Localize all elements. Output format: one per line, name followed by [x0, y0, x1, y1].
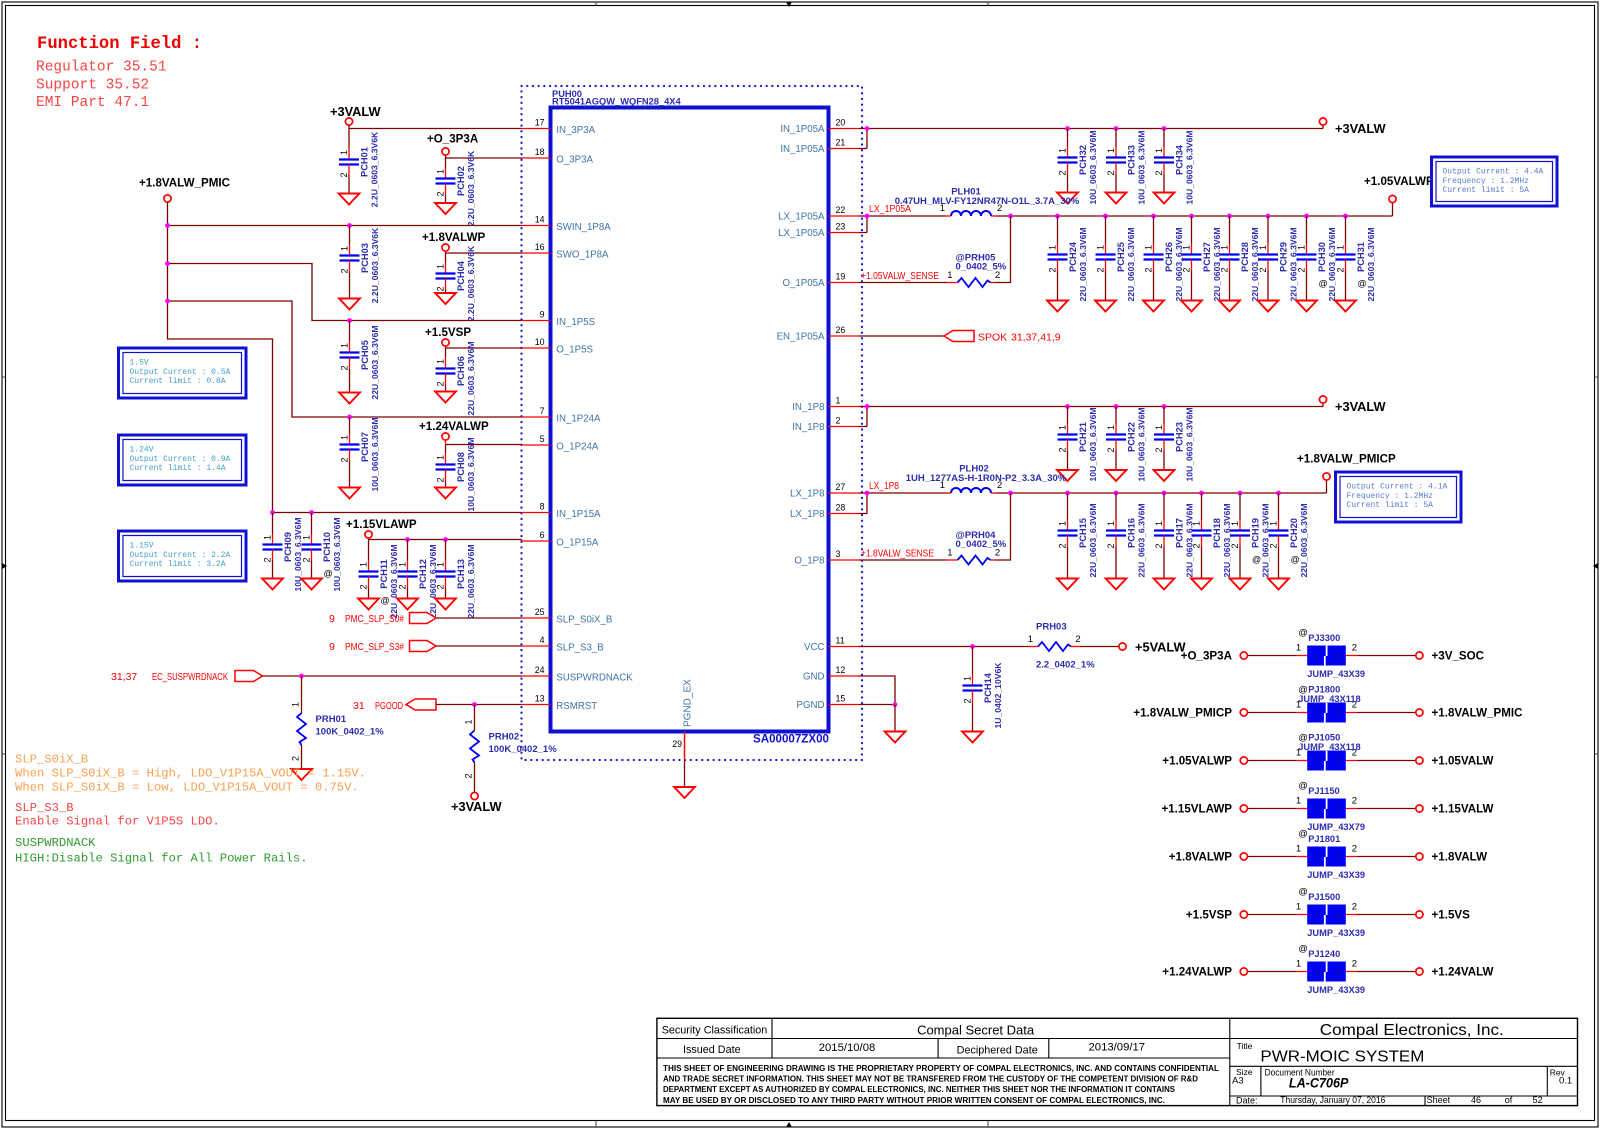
pin 23 LX_1P05A: [778, 221, 858, 239]
svg-text:2: 2: [340, 268, 350, 273]
svg-text:PCH32: PCH32: [1078, 145, 1088, 175]
svg-text:Regulator 35.51: Regulator 35.51: [36, 60, 167, 76]
svg-text:+1.5VSP: +1.5VSP: [425, 326, 471, 339]
svg-text:2: 2: [1336, 708, 1341, 718]
svg-text:2013/09/17: 2013/09/17: [1089, 1042, 1146, 1054]
resistor PRH03: [1028, 622, 1095, 671]
ground at pin 29: [674, 787, 695, 798]
wire rail 1P05: [1011, 215, 1393, 217]
svg-text:PJ3300: PJ3300: [1308, 633, 1340, 643]
svg-text:2.2_0402_1%: 2.2_0402_1%: [1036, 660, 1095, 671]
svg-text:PCH31: PCH31: [1356, 242, 1366, 272]
pin 2 IN_1P8: [792, 415, 858, 433]
svg-text:@: @: [1358, 279, 1367, 289]
svg-text:MAY BE USED BY OR DISCLOSED TO: MAY BE USED BY OR DISCLOSED TO ANY THIRD…: [663, 1096, 1165, 1105]
svg-text:1: 1: [1058, 425, 1068, 430]
capacitor PCH14: [962, 647, 1003, 743]
svg-text:PCH27: PCH27: [1202, 242, 1212, 272]
svg-text:22U_0603_6.3V6M: 22U_0603_6.3V6M: [466, 544, 476, 618]
svg-text:10U_0603_6.3V6M: 10U_0603_6.3V6M: [1185, 130, 1195, 204]
svg-text:2: 2: [1182, 267, 1192, 272]
svg-text:19: 19: [836, 271, 846, 281]
svg-text:2: 2: [836, 415, 841, 425]
svg-text:PCH01: PCH01: [360, 147, 370, 177]
svg-text:PRH01: PRH01: [316, 714, 347, 725]
capacitor PCH26: [1143, 216, 1184, 312]
svg-text:2: 2: [1058, 170, 1068, 175]
wire LX_1P8 from pins 27/28: [859, 493, 947, 514]
wire PLH02 stubs: [946, 492, 1011, 494]
svg-text:6: 6: [540, 530, 545, 540]
svg-text:0_0402_5%: 0_0402_5%: [956, 262, 1007, 273]
svg-text:5: 5: [540, 434, 545, 444]
net flag SPOK: [944, 331, 1061, 344]
svg-text:2.2U_0603_6.3V6K: 2.2U_0603_6.3V6K: [466, 245, 476, 321]
svg-text:+O_3P3A: +O_3P3A: [427, 133, 479, 146]
pin 10 O_1P5S: [522, 337, 594, 356]
svg-text:PJ1240: PJ1240: [1308, 949, 1340, 959]
svg-text:22U_0603_6.3V6M: 22U_0603_6.3V6M: [1299, 503, 1309, 577]
svg-text:22U_0603_6.3V6M: 22U_0603_6.3V6M: [1185, 503, 1195, 577]
svg-text:Security Classification: Security Classification: [662, 1025, 768, 1037]
svg-text:26: 26: [836, 325, 846, 335]
svg-text:SUSPWRDNACK: SUSPWRDNACK: [556, 672, 633, 683]
wire +1.15VLAWP to pin 6: [369, 539, 522, 541]
svg-text:@: @: [1298, 887, 1308, 898]
svg-text:13: 13: [535, 693, 545, 703]
svg-text:O_1P15A: O_1P15A: [556, 537, 599, 548]
svg-text:31: 31: [353, 700, 365, 712]
junction at PCH24: [1055, 214, 1060, 219]
ground at GND: [885, 732, 906, 743]
junction at PCH27: [1189, 214, 1194, 219]
svg-text:2: 2: [1106, 447, 1116, 452]
svg-text:PGOOD: PGOOD: [375, 700, 403, 712]
svg-text:Title: Title: [1237, 1041, 1253, 1051]
svg-text:10U_0603_6.3V6M: 10U_0603_6.3V6M: [1088, 130, 1098, 204]
capacitor PCH27: [1181, 216, 1222, 312]
svg-text:1: 1: [1144, 245, 1154, 250]
svg-text:10U_0603_6.3V6M: 10U_0603_6.3V6M: [370, 417, 380, 491]
svg-text:IN_1P8: IN_1P8: [792, 422, 824, 433]
capacitor PCH08: [435, 437, 476, 511]
svg-text:+1.05VALW: +1.05VALW: [1432, 755, 1494, 768]
power +1.5VSP: [425, 326, 471, 348]
svg-text:+1.5VSP: +1.5VSP: [1186, 909, 1232, 922]
wire GND to ground: [894, 705, 896, 732]
wire IN_1P05A rail +3VALW: [859, 125, 1324, 149]
junction LX1P8 pins: [865, 491, 870, 496]
svg-text:LX_1P8: LX_1P8: [790, 509, 824, 520]
svg-text:2: 2: [464, 773, 474, 778]
svg-text:2: 2: [436, 584, 446, 589]
svg-text:28: 28: [836, 502, 846, 512]
wire PLH01 stubs: [946, 215, 1011, 217]
svg-text:31,37,41,9: 31,37,41,9: [1011, 332, 1061, 344]
svg-text:21: 21: [836, 137, 846, 147]
svg-text:1: 1: [291, 702, 301, 707]
svg-text:PRH03: PRH03: [1036, 622, 1067, 633]
svg-text:PJ1801: PJ1801: [1308, 834, 1340, 844]
junction LX pins: [865, 214, 870, 219]
svg-text:1: 1: [1258, 245, 1268, 250]
svg-text:+1.8VALW_PMIC: +1.8VALW_PMIC: [139, 177, 231, 190]
junction at PRH01: [299, 674, 304, 679]
svg-text:IN_1P5S: IN_1P5S: [556, 317, 595, 328]
capacitor PCH30: [1296, 216, 1337, 312]
svg-text:PCH28: PCH28: [1240, 242, 1250, 272]
svg-text:1: 1: [1296, 796, 1301, 807]
junction at PCH09: [270, 510, 275, 515]
svg-text:2: 2: [340, 457, 350, 462]
svg-text:PCH30: PCH30: [1317, 242, 1327, 272]
pin 13 RSMRST: [522, 693, 598, 712]
svg-text:100K_0402_1%: 100K_0402_1%: [489, 744, 558, 755]
capacitor PCH22: [1106, 407, 1147, 482]
svg-text:PJ1500: PJ1500: [1308, 892, 1340, 902]
capacitor PCH24: [1047, 216, 1088, 312]
pin 3 O_1P8: [794, 549, 858, 567]
svg-text:52: 52: [1533, 1095, 1543, 1105]
svg-text:Current limit : 5A: Current limit : 5A: [1443, 186, 1530, 195]
svg-text:2: 2: [1352, 796, 1357, 807]
svg-text:+3VALW: +3VALW: [451, 799, 503, 814]
capacitor PCH34: [1154, 129, 1195, 205]
svg-text:10U_0603_6.3V6M: 10U_0603_6.3V6M: [293, 517, 303, 591]
capacitor PCH10: [301, 513, 342, 592]
svg-text:2: 2: [436, 286, 446, 291]
wire PRH05 to rail: [946, 216, 1011, 283]
svg-text:SPOK: SPOK: [978, 332, 1007, 344]
node +1.24VALWP: [1162, 966, 1247, 979]
svg-text:2: 2: [359, 584, 369, 589]
svg-text:@: @: [1252, 555, 1261, 565]
svg-text:PCH07: PCH07: [360, 432, 370, 462]
svg-text:0_0402_5%: 0_0402_5%: [956, 539, 1007, 550]
junction GND PGND: [893, 702, 898, 707]
capacitor PCH32: [1057, 129, 1098, 205]
svg-text:Issued Date: Issued Date: [683, 1044, 741, 1056]
svg-text:Enable Signal for V1P5S LDO.: Enable Signal for V1P5S LDO.: [15, 815, 220, 829]
power +1.8VALW_PMIC: [139, 177, 231, 203]
wire PRH04 to rail: [946, 493, 1011, 560]
capacitor PCH29: [1258, 216, 1299, 312]
svg-text:2: 2: [1106, 170, 1116, 175]
svg-text:Compal Secret Data: Compal Secret Data: [917, 1022, 1035, 1037]
wire PRH03 to +5VALW: [1029, 646, 1119, 648]
svg-text:0.1: 0.1: [1559, 1076, 1572, 1087]
svg-text:2: 2: [1096, 267, 1106, 272]
junction at PCH32: [1065, 126, 1070, 131]
node +1.8VALW: [1416, 851, 1487, 864]
svg-text:2: 2: [1154, 447, 1164, 452]
svg-text:EC_SUSPWRDNACK: EC_SUSPWRDNACK: [152, 671, 228, 683]
pin 6 O_1P15A: [522, 530, 599, 549]
svg-text:+1.8VALW_PMIC: +1.8VALW_PMIC: [1432, 707, 1524, 720]
wire trunk to pin 7: [168, 301, 522, 417]
svg-text:1UH_1277AS-H-1R0N-P2_3.3A_30%: 1UH_1277AS-H-1R0N-P2_3.3A_30%: [906, 473, 1067, 484]
svg-text:SLP_S0iX_B: SLP_S0iX_B: [556, 614, 612, 625]
svg-text:1: 1: [1028, 634, 1033, 645]
svg-text:2: 2: [398, 584, 408, 589]
svg-text:+1.5VS: +1.5VS: [1432, 909, 1471, 922]
svg-text:+1.8VALW_PMICP: +1.8VALW_PMICP: [1133, 707, 1232, 720]
junction at PCH14: [970, 644, 975, 649]
inductor PLH01: [895, 187, 1080, 217]
wire +O_3P3A to pin 18: [446, 157, 522, 159]
node +1.8VALW_PMIC: [1416, 707, 1523, 720]
svg-text:1: 1: [436, 562, 446, 567]
svg-text:PCH05: PCH05: [360, 340, 370, 370]
pin 11 VCC: [804, 635, 858, 653]
pin 27 LX_1P8: [790, 482, 858, 500]
svg-text:PCH34: PCH34: [1175, 144, 1185, 175]
svg-text:PCH26: PCH26: [1164, 242, 1174, 272]
junction PLH01 out: [1008, 214, 1013, 219]
svg-text:2: 2: [1352, 902, 1357, 913]
wire to +1.05VALWP: [1392, 203, 1394, 217]
node +1.5VSP: [1186, 909, 1247, 922]
svg-text:1: 1: [1154, 148, 1164, 153]
junction trunk pin14: [165, 223, 170, 228]
svg-text:+3VALW: +3VALW: [1335, 121, 1387, 136]
svg-text:+1.15VLAWP: +1.15VLAWP: [1161, 803, 1232, 816]
junction at PCH30: [1304, 214, 1309, 219]
svg-text:1: 1: [1058, 521, 1068, 526]
svg-text:22U_0603_6.3V6M: 22U_0603_6.3V6M: [1261, 503, 1271, 577]
svg-text:A3: A3: [1232, 1076, 1244, 1087]
info box 1.15V: [119, 531, 247, 581]
svg-text:SWIN_1P8A: SWIN_1P8A: [556, 222, 611, 233]
svg-text:@: @: [324, 569, 333, 579]
capacitor PCH33: [1106, 129, 1147, 205]
svg-text:+1.05VALWP: +1.05VALWP: [1364, 175, 1434, 188]
junction at PCH18: [1199, 491, 1204, 496]
svg-text:2: 2: [436, 381, 446, 386]
svg-text:2: 2: [963, 698, 973, 703]
svg-text:+1.8VALWP: +1.8VALWP: [422, 231, 486, 244]
junction rail1 pins: [865, 126, 870, 131]
svg-text:22U_0603_6.3V6M: 22U_0603_6.3V6M: [1126, 227, 1136, 301]
svg-text:PCH21: PCH21: [1078, 422, 1088, 452]
svg-text:2: 2: [1230, 543, 1240, 548]
svg-text:Output Current : 4.4A: Output Current : 4.4A: [1443, 168, 1544, 177]
svg-text:1: 1: [1106, 148, 1116, 153]
svg-text:1: 1: [1296, 643, 1301, 654]
svg-text:2: 2: [1144, 267, 1154, 272]
svg-text:22U_0603_6.3V6M: 22U_0603_6.3V6M: [1366, 227, 1376, 301]
wire trunk to pin 8: [273, 512, 522, 514]
svg-text:PCH11: PCH11: [379, 559, 389, 588]
wire +1.8VALW_SENSE: [859, 559, 947, 561]
svg-text:GND: GND: [803, 672, 825, 683]
junction at PCH20: [1276, 491, 1281, 496]
svg-text:IN_1P8: IN_1P8: [792, 402, 824, 413]
svg-text:Compal Electronics, Inc.: Compal Electronics, Inc.: [1320, 1022, 1504, 1039]
svg-text:PCH02: PCH02: [456, 166, 466, 196]
svg-text:SWO_1P8A: SWO_1P8A: [556, 249, 609, 260]
svg-text:22U_0603_6.3V6M: 22U_0603_6.3V6M: [1222, 503, 1232, 577]
svg-text:When SLP_S0iX_B = Low, LDO_V1P: When SLP_S0iX_B = Low, LDO_V1P15A_VOUT =…: [15, 781, 359, 795]
svg-text:VCC: VCC: [804, 642, 824, 653]
junction at PCH21: [1065, 404, 1070, 409]
wire IN_1P8 rail +3VALW: [859, 403, 1324, 427]
pin 20 IN_1P05A: [780, 117, 858, 135]
svg-text:1: 1: [1314, 804, 1319, 814]
svg-text:PCH08: PCH08: [456, 452, 466, 482]
wire +1.05VALW_SENSE: [859, 282, 947, 284]
svg-text:2: 2: [302, 557, 312, 562]
svg-text:PRH02: PRH02: [489, 732, 520, 743]
svg-text:1.24V: 1.24V: [130, 446, 154, 455]
svg-text:Output Current : 0.5A: Output Current : 0.5A: [130, 368, 231, 377]
capacitor PCH18: [1191, 493, 1232, 590]
net flag PGOOD: [353, 699, 522, 712]
svg-text:PCH18: PCH18: [1212, 518, 1222, 548]
wire +1.8VALWP to pin 16: [446, 252, 522, 254]
svg-text:1: 1: [436, 359, 446, 364]
svg-text:O_1P24A: O_1P24A: [556, 441, 599, 452]
pin 8 IN_1P15A: [522, 501, 601, 520]
junction at PCH26: [1151, 214, 1156, 219]
node +O_3P3A: [1181, 650, 1248, 663]
svg-text:1: 1: [1048, 245, 1058, 250]
pin 21 IN_1P05A: [780, 137, 858, 155]
svg-text:+3VALW: +3VALW: [1335, 399, 1387, 414]
svg-text:17: 17: [535, 117, 545, 127]
junction at PRH02: [472, 702, 477, 707]
svg-text:22U_0603_6.3V6M: 22U_0603_6.3V6M: [1289, 227, 1299, 301]
svg-text:PCH15: PCH15: [1078, 518, 1088, 548]
svg-text:PCH19: PCH19: [1251, 518, 1261, 548]
svg-text:2.2U_0603_6.3V6K: 2.2U_0603_6.3V6K: [370, 227, 380, 303]
svg-text:@: @: [1298, 944, 1308, 955]
svg-text:+3V_SOC: +3V_SOC: [1432, 650, 1485, 663]
capacitor PCH21: [1057, 407, 1098, 482]
svg-text:20: 20: [836, 117, 846, 127]
node +1.24VALW: [1416, 966, 1494, 979]
power +5VALW: [1119, 640, 1187, 655]
node +1.05VALW: [1416, 755, 1494, 768]
svg-text:PCH17: PCH17: [1175, 518, 1185, 548]
pin 22 LX_1P05A: [778, 205, 858, 223]
svg-text:SLP_S3_B: SLP_S3_B: [556, 642, 603, 653]
svg-text:1: 1: [1297, 245, 1307, 250]
svg-text:1: 1: [1296, 902, 1301, 913]
svg-text:25: 25: [535, 607, 545, 617]
svg-text:1: 1: [398, 562, 408, 567]
svg-text:+1.24VALWP: +1.24VALWP: [419, 420, 489, 433]
junction at PCH31: [1343, 214, 1348, 219]
svg-text:1: 1: [963, 676, 973, 681]
pin 29 PGND_EX: [672, 679, 693, 787]
pin 18 O_3P3A: [522, 147, 594, 166]
svg-text:1: 1: [1314, 651, 1319, 661]
svg-text:@: @: [1319, 279, 1328, 289]
svg-text:2: 2: [1336, 804, 1341, 814]
pin 4 SLP_S3_B: [522, 635, 604, 654]
svg-text:22U_0603_6.3V6M: 22U_0603_6.3V6M: [1212, 227, 1222, 301]
node +1.8VALW_PMICP: [1133, 707, 1247, 720]
jumper PJ1050: [1244, 733, 1420, 771]
junction at PCH29: [1266, 214, 1271, 219]
junction at PCH16: [1114, 491, 1119, 496]
svg-text:HIGH:Disable Signal for All Po: HIGH:Disable Signal for All Power Rails.: [15, 852, 308, 866]
junction at PCH25: [1103, 214, 1108, 219]
node +1.15VALW: [1416, 803, 1494, 816]
info box output current 4.1A: [1336, 472, 1462, 522]
wire to +1.8VALW_PMICP: [1326, 480, 1328, 493]
svg-text:2: 2: [1106, 543, 1116, 548]
pin 15 PGND: [797, 693, 859, 711]
svg-text:When SLP_S0iX_B = High, LDO_V1: When SLP_S0iX_B = High, LDO_V1P15A_VOUT …: [15, 767, 366, 781]
svg-text:10: 10: [535, 337, 545, 347]
svg-text:1: 1: [1314, 852, 1319, 862]
svg-text:2: 2: [1075, 634, 1080, 645]
svg-text:PCH06: PCH06: [456, 356, 466, 386]
svg-text:1.5V: 1.5V: [130, 359, 149, 368]
pin 16 SWO_1P8A: [522, 242, 610, 260]
op-amp U PUH00 dotted boundary: [522, 86, 863, 760]
svg-text:9: 9: [329, 613, 335, 625]
svg-text:2: 2: [1352, 959, 1357, 970]
junction trunk 1p5s: [165, 261, 170, 266]
svg-text:1: 1: [1220, 245, 1230, 250]
svg-text:1: 1: [836, 395, 841, 405]
node +3V_SOC: [1416, 650, 1485, 663]
svg-text:2.2U_0603_6.3V6K: 2.2U_0603_6.3V6K: [466, 150, 476, 226]
note SLP_S0iX_B: [15, 753, 366, 795]
resistor PRH02: [464, 719, 558, 778]
svg-text:10U_0603_6.3V6M: 10U_0603_6.3V6M: [1185, 407, 1195, 481]
wire LX_1P05A from pins 22/23: [859, 216, 947, 233]
svg-text:22U_0603_6.3V6M: 22U_0603_6.3V6M: [428, 544, 438, 618]
jumper PJ1800: [1244, 685, 1420, 723]
svg-text:PCH10: PCH10: [322, 532, 332, 562]
svg-text:1: 1: [1314, 967, 1319, 977]
power +1.8VALWP: [422, 231, 486, 253]
svg-text:LX_1P05A: LX_1P05A: [778, 212, 825, 223]
node +1.15VLAWP: [1161, 803, 1247, 816]
svg-text:IN_1P05A: IN_1P05A: [780, 124, 825, 135]
svg-text:PCH23: PCH23: [1175, 422, 1185, 452]
svg-text:22U_0603_6.3V6M: 22U_0603_6.3V6M: [466, 341, 476, 415]
inductor PLH02: [906, 464, 1067, 494]
junction at PCH19: [1238, 491, 1243, 496]
svg-text:PCH22: PCH22: [1127, 422, 1137, 452]
pin 25 SLP_S0iX_B: [522, 607, 613, 626]
svg-text:Current limit : 0.8A: Current limit : 0.8A: [130, 377, 226, 386]
svg-text:24: 24: [535, 665, 545, 675]
svg-text:2: 2: [1336, 967, 1341, 977]
pin 9 IN_1P5S: [522, 309, 596, 328]
svg-text:1: 1: [436, 455, 446, 460]
junction at PCH12: [405, 537, 410, 542]
svg-text:1: 1: [1314, 708, 1319, 718]
svg-text:SLP_S3_B: SLP_S3_B: [15, 801, 74, 815]
svg-text:PCH04: PCH04: [456, 260, 466, 291]
wire trunk to pin 9: [168, 264, 522, 321]
svg-text:Current limit : 3.2A: Current limit : 3.2A: [130, 560, 226, 569]
power +1.05VALWP: [1364, 175, 1434, 203]
svg-text:SLP_S0iX_B: SLP_S0iX_B: [15, 753, 88, 767]
svg-text:16: 16: [535, 242, 545, 252]
svg-text:Deciphered Date: Deciphered Date: [957, 1045, 1038, 1057]
svg-text:2: 2: [1352, 643, 1357, 654]
svg-text:4: 4: [540, 635, 545, 645]
info box 1.24V: [119, 435, 247, 485]
svg-text:PCH09: PCH09: [283, 532, 293, 562]
